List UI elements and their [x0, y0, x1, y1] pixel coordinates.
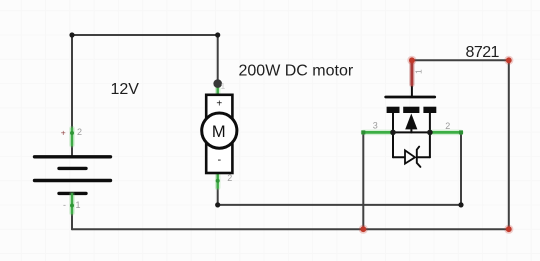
- svg-text:-: -: [217, 154, 221, 166]
- svg-text:200W DC motor: 200W DC motor: [239, 63, 354, 80]
- svg-text:+: +: [61, 127, 66, 137]
- svg-text:2: 2: [77, 127, 82, 137]
- svg-text:1: 1: [221, 81, 226, 91]
- svg-text:12V: 12V: [111, 81, 140, 98]
- svg-text:1: 1: [76, 200, 81, 210]
- svg-text:+: +: [216, 99, 222, 110]
- svg-text:-: -: [63, 200, 66, 210]
- svg-text:2: 2: [227, 173, 232, 183]
- svg-text:3: 3: [373, 121, 378, 131]
- svg-text:2: 2: [445, 121, 450, 131]
- svg-text:M: M: [212, 123, 226, 141]
- svg-text:1: 1: [414, 69, 424, 74]
- svg-text:8721: 8721: [466, 44, 500, 61]
